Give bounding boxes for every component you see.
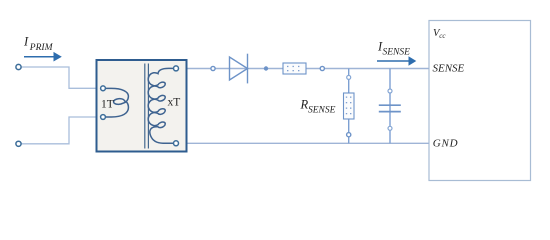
svg-text:SENSE: SENSE — [433, 62, 465, 74]
svg-text:cc: cc — [439, 32, 446, 40]
svg-text:xT: xT — [168, 97, 181, 109]
svg-text:SENSE: SENSE — [308, 105, 336, 115]
svg-text:SENSE: SENSE — [383, 48, 411, 58]
svg-text:GND: GND — [433, 137, 459, 149]
svg-text:I: I — [23, 35, 29, 49]
svg-text:1T: 1T — [101, 99, 114, 111]
svg-text:PRIM: PRIM — [29, 43, 54, 53]
